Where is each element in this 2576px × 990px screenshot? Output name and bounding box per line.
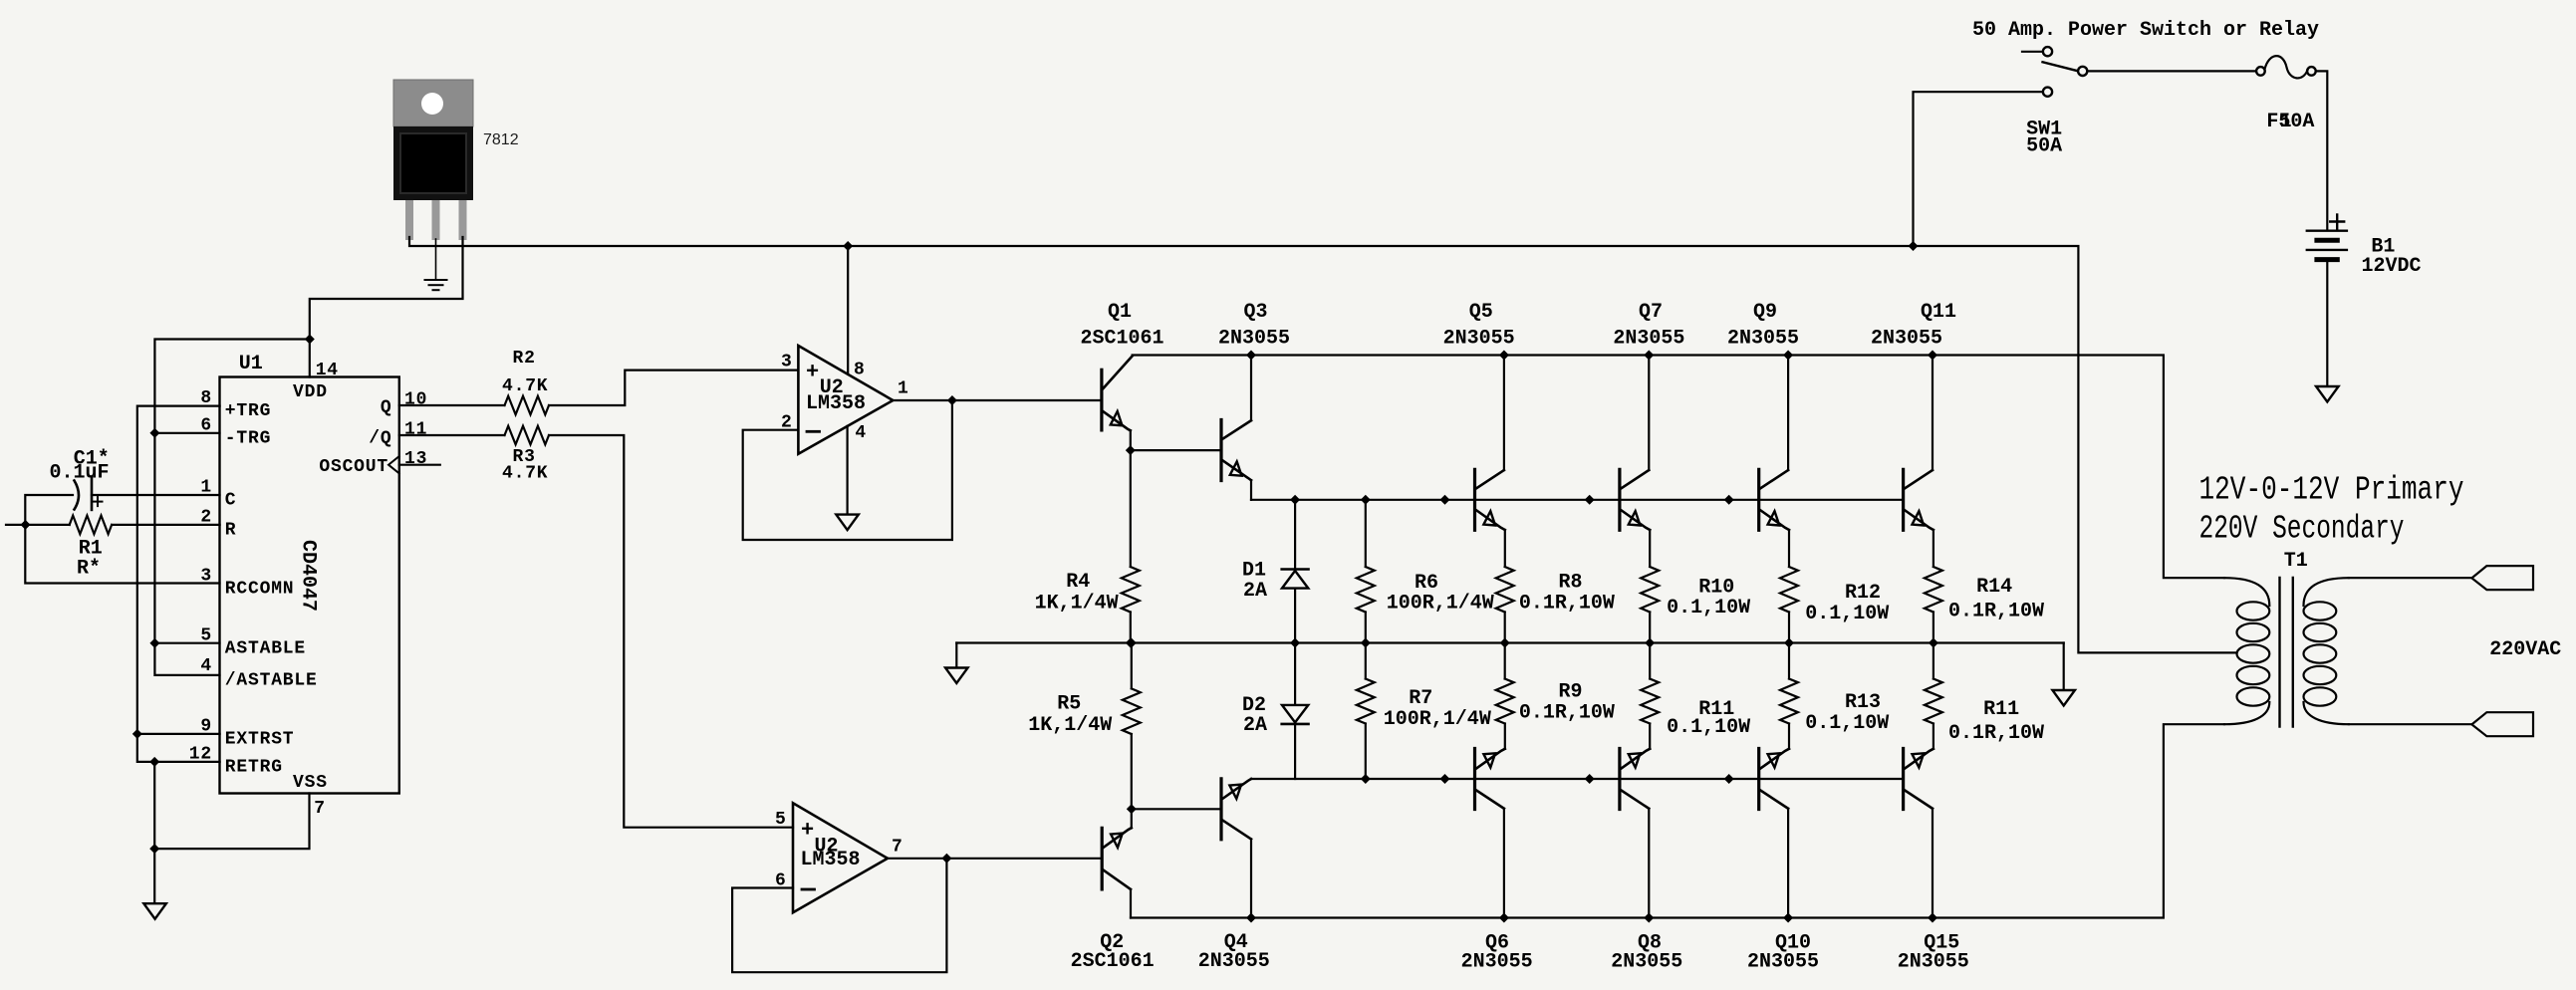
node: lower base rail dot 2 [1585,774,1595,784]
svg-text:8: 8 [200,388,212,408]
svg-text:1: 1 [2280,111,2292,133]
svg-text:/Q: /Q [369,429,391,449]
svg-text:R12: R12 [1845,582,1881,605]
label 2N3055 (Q4) [1198,950,1270,973]
IC U1 CD4047 body [220,377,399,794]
svg-text:2N3055: 2N3055 [1461,951,1533,974]
resistor R2 labels [502,349,548,396]
node: Q5 collector junction [1499,351,1509,361]
transistor Q9 2N3055 [1759,469,1789,530]
label U2 B [815,835,839,858]
svg-text:6: 6 [200,415,212,435]
svg-text:R4: R4 [1066,571,1090,594]
label pin 9 [200,716,212,736]
node: R6 bottom junction [1361,638,1371,648]
label 0.1R,10W (R9) [1519,701,1615,724]
op-amp U2B LM358 triangle [793,803,888,912]
label 100R,1/4W (R7) [1384,708,1491,731]
label 8 [854,361,866,380]
label Q2 [1100,931,1124,954]
label 2N3055 (Q7) [1613,328,1684,351]
capacitor C1 (polarized) [75,477,103,510]
node: Q1 emitter junction [1126,445,1136,455]
svg-text:2N3055: 2N3055 [1443,328,1515,351]
terminal flag (secondary top) [2471,566,2533,590]
node: base rail dot 2 [1585,495,1595,505]
label 4 [855,423,867,443]
svg-text:2SC1061: 2SC1061 [1081,328,1164,351]
svg-text:100R,1/4W: 100R,1/4W [1384,708,1491,731]
svg-text:LM358: LM358 [801,849,861,871]
label 2A (D1) [1243,580,1267,603]
svg-text:12VDC: 12VDC [2362,255,2422,278]
label pin 6 [200,415,212,435]
svg-text:R5: R5 [1057,693,1081,716]
resistor R3 labels [502,447,548,484]
transistor Q15 2N3055 [1904,749,1933,810]
label R [225,521,237,541]
node: switch branch joins +12V rail [1909,241,1919,251]
node: EXTRST junction [132,729,142,739]
label 2N3055 (Q8) [1611,951,1682,974]
wire: Q7 collector to top rail [1648,356,1650,471]
wire: U2A V+ pin 8 to rail [847,246,849,374]
voltage regulator U3 7812 (TO-220 package) [393,80,473,240]
resistor R6 100R [1357,500,1375,643]
label pin 14 [316,361,339,380]
ground (mid rail right) [2052,690,2075,706]
resistor R8 0.1R [1496,567,1514,643]
node: VDD junction [305,335,315,345]
svg-text:EXTRST: EXTRST [225,730,295,750]
transistor Q3 2N3055 [1221,420,1251,481]
svg-text:0.1R,10W: 0.1R,10W [1519,701,1615,724]
label B1 [2371,235,2395,258]
node: Q11 collector junction [1928,351,1937,361]
node: U2B output junction [941,854,951,864]
svg-text:R7: R7 [1409,687,1432,710]
label 3 [781,353,793,372]
label Q9 [1753,301,1777,324]
node: R10 bottom junction [1645,638,1655,648]
svg-text:0.1,10W: 0.1,10W [1667,597,1750,619]
svg-text:RETRG: RETRG [225,758,283,778]
terminal flag (secondary bottom) [2471,712,2533,736]
wire: upper base rail [1251,499,1904,501]
wire: pin 10 Q output through R2 to op-amp U2A +input [399,371,799,415]
label ASTABLE [225,639,306,659]
wire: Q7 emitter down [1649,530,1651,567]
label T1 [2284,550,2308,573]
label 0.1R,10W (R8) [1519,593,1615,616]
label 2N3055 (Q9) [1727,328,1799,351]
wire: Q15 emitter up [1932,724,1934,749]
label 1K,1/4W (R5) [1028,714,1112,737]
transistor Q11 2N3055 [1904,469,1933,530]
label pin 2 [200,507,212,527]
label pin 8 [200,388,212,408]
diode D2 2A [1282,643,1309,780]
label R11 [1698,698,1734,721]
transistor Q7 2N3055 [1620,469,1650,530]
svg-text:2A: 2A [1243,714,1267,737]
svg-text:CD4047: CD4047 [297,540,320,612]
svg-text:4: 4 [855,423,867,443]
svg-text:12: 12 [189,744,212,764]
label SW1 [2026,118,2062,140]
svg-text:5: 5 [200,626,212,646]
svg-text:R8: R8 [1559,572,1583,595]
node: R1 left junction [21,520,31,530]
label pin 1 [200,478,212,498]
label Q1 [1108,301,1132,324]
wire: pin 2 R line with R1 [6,524,220,526]
svg-text:1K,1/4W: 1K,1/4W [1035,593,1119,616]
label 1 [898,379,909,399]
wire: Q9 emitter down [1788,530,1790,567]
wire: Q1 emitter down to node [1130,430,1132,450]
svg-text:11: 11 [404,420,427,440]
switch SW1 [2022,47,2087,97]
oscout wedge [388,456,399,473]
label 0.1,10W (R10) [1667,597,1750,619]
label RCCOMN [225,580,295,600]
label R13 [1845,691,1881,714]
label LM358 A [806,392,866,415]
node: Q15 collector junction [1928,913,1937,923]
svg-text:R9: R9 [1559,680,1583,703]
node: op-amp V+ joins +12V rail [843,241,853,251]
resistor R1 [70,516,112,535]
wire: pin 1 C line [25,495,219,584]
wire: middle ground rail [956,641,2063,643]
label 7 [892,838,903,858]
svg-text:Q1: Q1 [1108,301,1132,324]
transistor Q1 2SC1061 [1102,357,1133,431]
svg-text:+: + [806,361,819,385]
svg-text:OSCOUT: OSCOUT [319,457,388,477]
svg-text:9: 9 [200,716,212,736]
transistor Q2 2SC1061 [1102,828,1132,889]
wire: Q6 emitter up [1504,724,1506,749]
svg-text:Q9: Q9 [1753,301,1777,324]
node: pin 5 junction [149,638,159,648]
label 7812 [483,131,519,148]
resistor R12 0.1R [1780,567,1798,643]
wire: 7812 output to U1 pin 14 [310,237,463,377]
svg-text:Q: Q [381,398,392,418]
ground (U2A pin 4) [836,515,859,531]
wire: switch to fuse [2087,70,2256,72]
label 50 Amp. Power Switch or Relay [1972,19,2319,42]
label R12 [1845,582,1881,605]
label 0.1,10W (R11) [1667,716,1750,739]
resistor R11 0.1R [1641,643,1659,724]
label 5 [775,810,787,830]
wire: lower base rail [1251,778,1904,780]
label 2A (D2) [1243,714,1267,737]
transistor Q6 2N3055 [1475,749,1505,810]
node: R7 bottom junction [1361,774,1371,784]
label D1 [1242,560,1266,583]
wire: fuse to battery + [2316,71,2328,228]
label VDD [293,382,328,402]
wire: pin 11 /Q output through R3 to op-amp U2B +input [399,426,793,828]
node: R4 bottom junction [1126,638,1136,648]
node: Q9 collector junction [1783,351,1793,361]
node: Q7 collector junction [1644,351,1654,361]
resistor R10 0.1R [1641,567,1659,643]
wire: +12V rail from 7812 input pin to transformer center tap [409,237,2237,652]
svg-text:Q3: Q3 [1244,301,1268,324]
wire: Q5 emitter down [1504,530,1506,567]
label R11 (lower right) [1983,698,2019,721]
label R9 [1559,680,1583,703]
wire: Q9 collector to top rail [1787,356,1789,471]
wire: pin 13 OSCOUT stub [399,464,440,466]
svg-text:C: C [225,491,237,511]
svg-text:R14: R14 [1976,576,2012,599]
node: Q6 collector junction [1499,913,1509,923]
svg-text:R11: R11 [1983,698,2019,721]
label 50A (SW1) [2026,135,2062,158]
svg-text:Q5: Q5 [1469,301,1493,324]
wire: Q5 collector to top rail [1503,356,1505,471]
label pin 12 [189,744,212,764]
wire: pin 9 EXTRST stub [137,733,220,735]
svg-text:2N3055: 2N3055 [1898,951,1969,974]
svg-text:R13: R13 [1845,691,1881,714]
wire: switch to +12V rail [1914,92,2043,246]
node: RETRG junction [149,757,159,767]
label 2SC1061 (Q1) [1081,328,1164,351]
label R10 [1698,577,1734,600]
label pin 7 [314,799,326,819]
svg-text:RCCOMN: RCCOMN [225,580,295,600]
svg-text:2N3055: 2N3055 [1218,328,1290,351]
node: D1 top junction [1290,495,1300,505]
transformer T1 secondary winding [2304,578,2349,724]
transformer T1 primary winding [2224,578,2269,724]
label pin 13 [404,449,427,469]
resistor R7 100R [1357,643,1375,780]
label pin 5 [200,626,212,646]
label C1* [74,448,110,471]
svg-text:R: R [225,521,237,541]
resistor R14 0.1R [1925,567,1942,643]
node: pin 6 junction [149,428,159,438]
wire: ground chain to VSS [154,762,309,903]
wire: Q11 emitter down [1932,530,1934,567]
node: lower base rail dot 3 [1724,774,1734,784]
label U2 A [820,376,844,399]
transistor Q5 2N3055 [1475,469,1505,530]
label +TRG [225,401,271,421]
svg-text:4: 4 [200,656,212,676]
label 100R,1/4W (R6) [1387,593,1494,616]
svg-text:2A: 2A [1243,580,1267,603]
label plus input B [801,819,814,844]
ground (7812 common pin) [425,239,447,290]
svg-text:2N3055: 2N3055 [1747,951,1819,974]
svg-text:2N3055: 2N3055 [1198,950,1270,973]
battery B1 plus sign [2330,215,2344,229]
svg-text:0.1R,10W: 0.1R,10W [1948,722,2044,745]
resistor R11b 0.1R [1925,643,1942,724]
svg-text:0.1,10W: 0.1,10W [1805,603,1889,625]
wire: VDD branch to CD4047 pins 6/5/4 [154,340,309,675]
label R1 [79,538,103,561]
label R8 [1559,572,1583,595]
label 1K,1/4W (R4) [1035,593,1119,616]
svg-text:Q11: Q11 [1921,301,1956,324]
ground (battery) [2316,386,2339,402]
label 2SC1061 (Q2) [1071,950,1155,973]
label U1 [239,353,263,375]
svg-text:50A: 50A [2026,135,2062,158]
wire: pin 8 +TRG to ground chain [137,406,220,762]
label 6 [775,871,787,891]
wire: Q15 collector to bottom rail [1932,809,1933,918]
label F50A [2266,111,2314,133]
svg-text:R2: R2 [513,349,536,369]
label 12V-0-12V Primary [2199,472,2464,509]
wire: Q4 collector to bottom rail [1250,840,1252,918]
node: base rail dot 1 [1440,495,1450,505]
ground (U1 VSS) [143,903,166,919]
label /Q [369,429,391,449]
svg-text:2N3055: 2N3055 [1727,328,1799,351]
label VSS [293,773,328,793]
label R4 [1066,571,1090,594]
label pin 4 [200,656,212,676]
wire: Q3 emitter to base rail [1250,480,1252,500]
wire: Q8 collector to bottom rail [1648,809,1650,918]
svg-text:LM358: LM358 [806,392,866,415]
transistor Q10 2N3055 [1759,749,1789,810]
label EXTRST [225,730,295,750]
label 2N3055 (Q6) [1461,951,1533,974]
battery B1 12VDC [2307,231,2347,260]
node: R8 bottom junction [1500,638,1510,648]
svg-text:7: 7 [314,799,326,819]
svg-text:ASTABLE: ASTABLE [225,639,306,659]
wire: Q10 emitter up [1788,724,1790,749]
label Q4 [1224,931,1248,954]
label 2 [781,413,793,433]
svg-text:R*: R* [77,558,101,581]
svg-text:0.1,10W: 0.1,10W [1667,716,1750,739]
label Q8 [1638,932,1662,955]
label 2N3055 (Q5) [1443,328,1515,351]
svg-text:8: 8 [854,361,866,380]
svg-text:4.7K: 4.7K [502,376,548,396]
wire: Q11 collector to top rail [1932,356,1933,471]
wire: top collector rail to transformer [1133,356,2224,579]
diode D1 2A [1282,500,1309,643]
label 0.1R,10W (R11b) [1948,722,2044,745]
label Q3 [1244,301,1268,324]
label R5 [1057,693,1081,716]
op-amp U2A LM358 triangle [798,346,893,454]
node: Q8 collector junction [1644,913,1654,923]
node: Q4 collector junction [1246,913,1256,923]
label RETRG [225,758,283,778]
label pin 11 [404,420,427,440]
node: R5 top junction [1127,638,1137,648]
svg-text:U1: U1 [239,353,263,375]
label 0.1,10W (R13) [1805,712,1889,735]
resistor R5 1K [1123,643,1141,810]
wire: U2B output to Q2 base [888,858,1101,860]
wire: Q2 collector to bottom rail [1130,889,1132,918]
svg-text:220V Secondary: 220V Secondary [2199,511,2405,548]
wire: mid rail left ground stub [955,643,957,668]
label /ASTABLE [225,671,318,691]
svg-text:13: 13 [404,449,427,469]
node: Q3 collector junction [1246,351,1256,361]
label 0.1uF [50,462,110,485]
svg-text:-TRG: -TRG [225,428,271,448]
svg-text:0.1uF: 0.1uF [50,462,110,485]
label 2N3055 (Q11) [1871,328,1942,351]
node: VSS junction [149,844,159,854]
label Q6 [1485,932,1509,955]
transformer T1 core [2280,578,2293,727]
label 0.1,10W (R12) [1805,603,1889,625]
node: U2A output junction [947,395,957,405]
svg-text:1: 1 [898,379,909,399]
transistor Q8 2N3055 [1620,749,1650,810]
wire: Q3 collector to top rail [1250,356,1252,421]
svg-text:+TRG: +TRG [225,401,271,421]
svg-text:7812: 7812 [483,131,519,148]
svg-text:0.1R,10W: 0.1R,10W [1948,601,2044,623]
wire: U2A output to Q1 base [893,399,1101,401]
wire: Q1 emitter to Q3 base [1131,449,1221,451]
wire: Q10 collector to bottom rail [1787,809,1789,918]
wire: secondary top lead [2349,577,2472,579]
svg-text:12V-0-12V Primary: 12V-0-12V Primary [2199,472,2464,509]
wire: mid rail right ground stub [2063,643,2065,690]
svg-text:4.7K: 4.7K [502,464,548,484]
resistor R9 0.1R [1496,643,1514,724]
svg-text:3: 3 [781,353,793,372]
label 220V Secondary [2199,511,2405,548]
wire: U2A V- pin 4 to ground [846,426,848,514]
svg-text:0.1,10W: 0.1,10W [1805,712,1889,735]
svg-text:VSS: VSS [293,773,328,793]
svg-text:14: 14 [316,361,339,380]
svg-text:+: + [801,819,814,844]
label -TRG [225,428,271,448]
label minus input B [802,888,815,891]
node: R14 bottom junction [1929,638,1938,648]
node: lower base rail dot 1 [1440,774,1450,784]
svg-text:1K,1/4W: 1K,1/4W [1028,714,1112,737]
wire: bottom collector rail to transformer [1131,724,2224,917]
label OSCOUT [319,457,388,477]
transistor Q4 2N3055 [1221,779,1251,840]
wire: battery - to ground [2326,262,2328,386]
node: R6 top junction [1361,495,1371,505]
svg-text:100R,1/4W: 100R,1/4W [1387,593,1494,616]
wire: Q8 emitter up [1649,724,1651,749]
label plus input A [806,361,819,385]
svg-text:2N3055: 2N3055 [1613,328,1684,351]
label pin 3 [200,567,212,587]
svg-text:2N3055: 2N3055 [1611,951,1682,974]
